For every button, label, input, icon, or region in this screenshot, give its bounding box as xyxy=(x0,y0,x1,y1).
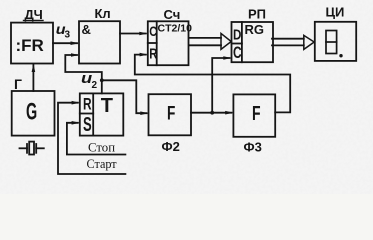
svg-text::FR: :FR xyxy=(16,36,44,55)
svg-text:РП: РП xyxy=(248,7,266,22)
svg-text:2: 2 xyxy=(92,80,98,91)
svg-text:Кл: Кл xyxy=(95,6,111,21)
svg-text:u: u xyxy=(81,70,92,87)
svg-text:R: R xyxy=(149,45,157,62)
svg-text:Ф2: Ф2 xyxy=(162,139,180,154)
svg-text:S: S xyxy=(83,113,92,136)
svg-text:R: R xyxy=(83,96,92,114)
svg-text:RG: RG xyxy=(245,22,265,37)
svg-text:Ф3: Ф3 xyxy=(244,140,262,155)
svg-text:CT2/10: CT2/10 xyxy=(158,23,193,35)
svg-text:D: D xyxy=(233,26,241,43)
svg-text:ДЧ: ДЧ xyxy=(25,7,43,22)
svg-text:G: G xyxy=(26,99,37,126)
svg-text:F: F xyxy=(167,102,175,124)
svg-text:T: T xyxy=(101,95,113,117)
svg-text:&: & xyxy=(82,22,91,37)
svg-text:C: C xyxy=(233,44,242,62)
svg-text:Стоп: Стоп xyxy=(88,141,115,155)
svg-text:C: C xyxy=(149,24,157,39)
svg-text:3: 3 xyxy=(65,30,71,41)
svg-text:Сч: Сч xyxy=(164,7,181,22)
svg-text:ЦИ: ЦИ xyxy=(326,5,345,20)
svg-text:Старт: Старт xyxy=(87,157,118,171)
svg-text:Г: Г xyxy=(14,76,22,92)
svg-text:F: F xyxy=(252,101,261,124)
